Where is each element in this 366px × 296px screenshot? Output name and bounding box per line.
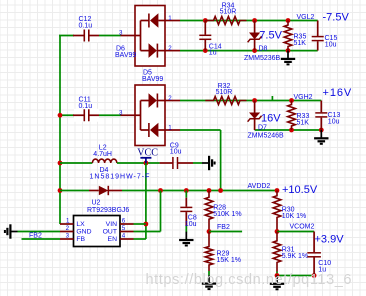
label C11 bbox=[79, 97, 91, 104]
svg-text:OUT: OUT bbox=[103, 229, 117, 236]
svg-text:FB2: FB2 bbox=[29, 232, 42, 239]
pin number 2 of D5 bbox=[168, 95, 172, 102]
wire left vertical bus from C12 row down to U2 LX pin bbox=[58, 36, 61, 225]
U2 pin 5 OUT lead bbox=[120, 231, 134, 233]
svg-text:1: 1 bbox=[168, 15, 172, 22]
value 0.1u of C12 bbox=[79, 23, 93, 30]
junction VCC junction bbox=[144, 161, 149, 166]
dual diode D5 BAV99 box bbox=[135, 85, 165, 146]
pin name VIN bbox=[106, 221, 117, 228]
svg-text:VCC: VCC bbox=[137, 148, 158, 159]
resistor R28 510K 1% bbox=[205, 191, 213, 232]
net voltage +10.5V bbox=[282, 184, 318, 196]
ground right of C9 bbox=[202, 156, 215, 170]
junction C10 bottom junction bbox=[312, 273, 317, 278]
label R33 bbox=[297, 113, 310, 120]
part BAV99 of D6 bbox=[115, 52, 136, 59]
designator D8 bbox=[259, 46, 268, 53]
inductor L2 4.7uH bbox=[92, 159, 116, 163]
svg-text:VIN: VIN bbox=[106, 221, 117, 228]
label R35 bbox=[294, 34, 307, 41]
net label VCOM2 bbox=[290, 224, 315, 231]
resistor R29 15K 1% bbox=[205, 232, 213, 272]
svg-text:0.1u: 0.1u bbox=[79, 103, 93, 110]
label R32 bbox=[218, 83, 231, 90]
wire from C9 to ground bbox=[193, 162, 202, 164]
power port VCC bbox=[137, 148, 158, 164]
D6 internal bus and pin3 stub bbox=[135, 21, 141, 51]
resistor R30 10K 1% bbox=[273, 191, 281, 232]
label C9 bbox=[170, 143, 179, 150]
svg-text:7.5V: 7.5V bbox=[259, 30, 282, 42]
svg-text:1: 1 bbox=[66, 217, 70, 224]
junction VIN junction bbox=[144, 222, 149, 227]
pin number 1 of U2 bbox=[66, 217, 70, 224]
pin number 1 of D5 bbox=[168, 125, 172, 132]
designator U2 bbox=[92, 200, 101, 207]
resistor R34 510R bbox=[205, 17, 246, 25]
wire from ground to U2 GND pin bbox=[18, 231, 61, 233]
D5 pin 3 lead bbox=[121, 114, 136, 116]
svg-text:4.7uH: 4.7uH bbox=[93, 151, 112, 158]
resistor R35 51K bbox=[284, 21, 292, 51]
svg-text:16V: 16V bbox=[261, 113, 281, 125]
junction R35 bottom bbox=[286, 48, 291, 53]
svg-text:10u: 10u bbox=[170, 149, 182, 156]
capacitor C13 10u bbox=[315, 101, 327, 131]
junction R31 ground junction bbox=[275, 273, 280, 278]
svg-text:VCOM2: VCOM2 bbox=[290, 224, 315, 231]
value 510K 1% of R28 bbox=[213, 211, 241, 218]
svg-text:U2: U2 bbox=[92, 200, 101, 207]
label C14 bbox=[209, 44, 222, 51]
wire vertical from corner down to AVDD2 row bbox=[220, 130, 222, 191]
net label VGL2 bbox=[297, 14, 315, 21]
resistor R31 5.9K 1% bbox=[273, 232, 281, 272]
svg-text:D7: D7 bbox=[258, 125, 267, 132]
svg-text:EN: EN bbox=[108, 236, 118, 243]
junction D7 top bbox=[252, 98, 257, 103]
ground below C13 bbox=[314, 130, 328, 144]
svg-text:5.9K 1%: 5.9K 1% bbox=[282, 253, 308, 260]
svg-text:+16V: +16V bbox=[323, 87, 353, 99]
pin name GND bbox=[76, 229, 91, 236]
pin number 3 of D5 bbox=[119, 110, 123, 117]
resistor R32 510R bbox=[205, 97, 246, 105]
U2 pin 4 EN lead bbox=[120, 238, 134, 240]
value 1u of C10 bbox=[318, 267, 326, 274]
label L2 bbox=[99, 145, 107, 152]
wire VIN pin to riser bbox=[134, 223, 146, 225]
svg-text:+10.5V: +10.5V bbox=[282, 184, 318, 196]
wire vertical from VCC junction down to U2 VIN bbox=[145, 163, 147, 224]
wire from left bus to D4 anode bbox=[60, 190, 89, 192]
net label FB2 right bbox=[217, 224, 230, 231]
value 510R of R34 bbox=[220, 9, 237, 16]
value 51K of R35 bbox=[294, 40, 307, 47]
pin number 2 of U2 bbox=[66, 225, 70, 232]
junction C13 bottom bbox=[319, 128, 324, 133]
svg-text:51K: 51K bbox=[294, 40, 307, 47]
junction VCOM2 junction bbox=[275, 229, 280, 234]
label R34 bbox=[222, 3, 235, 10]
wire net FB2 stub at U2 FB pin bbox=[22, 238, 61, 240]
junction left bus at D4 row bbox=[58, 188, 63, 193]
value 5.9K 1% of R31 bbox=[282, 253, 308, 260]
schottky diode D4 1N5819HW-7-F bbox=[89, 186, 122, 195]
label R31 bbox=[282, 247, 295, 254]
wire from L2 to VCC junction and C9 bbox=[117, 162, 160, 164]
D5 pin 1 lead bbox=[165, 129, 180, 131]
wire from left vertical to C11 and D5 pin3 bbox=[60, 114, 121, 116]
junction C8 top junction bbox=[184, 188, 189, 193]
svg-text:BAV99: BAV99 bbox=[142, 76, 163, 83]
pin name EN bbox=[108, 236, 118, 243]
svg-text:-7.5V: -7.5V bbox=[323, 12, 350, 24]
svg-text:4: 4 bbox=[122, 232, 126, 239]
D5 internal top diode cathode-right on pin2 row bbox=[141, 93, 166, 108]
pin number 4 of U2 bbox=[122, 232, 126, 239]
pin number 2 of D6 bbox=[168, 45, 172, 52]
wire stub above VGH2 row bbox=[271, 96, 273, 101]
value 51K of R33 bbox=[297, 120, 310, 127]
svg-text:3: 3 bbox=[119, 30, 123, 37]
label C10 bbox=[318, 260, 331, 267]
wire OUT pin to riser up to AVDD2 row bbox=[134, 191, 161, 232]
pin name FB bbox=[76, 236, 85, 243]
U2 pin 1 LX lead bbox=[60, 223, 74, 225]
designator D5 bbox=[143, 70, 152, 77]
svg-text:ZMM5236B: ZMM5236B bbox=[244, 55, 281, 62]
value 1u of C14 bbox=[209, 49, 217, 56]
capacitor C9 10u bbox=[160, 157, 193, 169]
label C8 bbox=[188, 215, 197, 222]
svg-text:LX: LX bbox=[76, 221, 85, 228]
wire net VGH2 row from D5 pin2 to C13 bbox=[180, 100, 321, 102]
wire net FB2 stub bbox=[209, 231, 242, 233]
U2 pin 3 FB lead bbox=[60, 238, 74, 240]
capacitor C11 0.1u bbox=[73, 109, 99, 122]
voltage 16V at D7 bbox=[261, 113, 281, 125]
junction R28 top junction bbox=[207, 188, 212, 193]
wire from left bus to inductor L2 bbox=[60, 162, 92, 164]
svg-text:1: 1 bbox=[168, 125, 172, 132]
svg-text:51K: 51K bbox=[297, 120, 310, 127]
pin name LX bbox=[76, 221, 85, 228]
value 510R of R32 bbox=[216, 89, 233, 96]
svg-text:10u: 10u bbox=[325, 42, 337, 49]
svg-text:0.1u: 0.1u bbox=[79, 23, 93, 30]
capacitor C8 10u bbox=[180, 191, 192, 233]
svg-text:15K 1%: 15K 1% bbox=[217, 257, 242, 264]
svg-text:3: 3 bbox=[119, 110, 123, 117]
D6 pin 2 lead bbox=[165, 50, 180, 52]
svg-text:FB2: FB2 bbox=[217, 224, 230, 231]
zener diode D8 ZMM5236B bbox=[248, 21, 262, 51]
capacitor C14 1u bbox=[199, 21, 211, 51]
part ZMM5236B of D8 bbox=[244, 55, 281, 62]
junction R33 top bbox=[289, 98, 294, 103]
svg-text:2: 2 bbox=[168, 95, 172, 102]
junction R35 top bbox=[286, 18, 291, 23]
svg-text:VGH2: VGH2 bbox=[294, 94, 313, 101]
svg-text:2: 2 bbox=[66, 225, 70, 232]
value 10K 1% of R30 bbox=[282, 213, 307, 220]
ground below R29 bbox=[202, 275, 216, 289]
svg-text:GND: GND bbox=[76, 229, 91, 236]
wire from R31 bottom to C10 bottom bbox=[277, 272, 314, 276]
svg-text:10K 1%: 10K 1% bbox=[282, 213, 307, 220]
svg-text:510R: 510R bbox=[220, 9, 237, 16]
zener diode D7 ZMM5246B bbox=[248, 101, 262, 131]
junction R33 bottom bbox=[289, 128, 294, 133]
wire net VGL2 top row from D6 pin1 to C15 bbox=[180, 20, 318, 22]
D6 pin 3 lead bbox=[121, 35, 136, 37]
svg-text:BAV99: BAV99 bbox=[115, 52, 136, 59]
label C15 bbox=[325, 35, 338, 42]
junction C11 row to left bus bbox=[58, 113, 63, 118]
net voltage +16V bbox=[323, 87, 353, 99]
label C13 bbox=[328, 112, 341, 119]
value 10u of C8 bbox=[185, 221, 197, 228]
wire bottom row of VGL2 section from D6 pin2 to C15 bbox=[180, 50, 318, 52]
pin number 5 of U2 bbox=[122, 225, 126, 232]
D5 internal bus and pin3 stub bbox=[135, 101, 141, 131]
net label AVDD2 bbox=[248, 183, 271, 190]
pin number 3 of U2 bbox=[66, 232, 70, 239]
svg-text:10u: 10u bbox=[185, 221, 197, 228]
ground below R35 bbox=[281, 51, 295, 65]
junction D8 top bbox=[252, 18, 257, 23]
designator D4 bbox=[100, 167, 109, 174]
capacitor C15 10u bbox=[312, 21, 324, 51]
capacitor C10 1u bbox=[307, 232, 321, 276]
wire from R29 to ground bbox=[208, 271, 210, 275]
svg-text:10u: 10u bbox=[328, 119, 340, 126]
wire from left vertical to C12 and D6 pin3 bbox=[59, 35, 120, 37]
D5 internal bottom diode cathode-left on pin1 row bbox=[141, 123, 166, 138]
svg-text:RT9293BGJ6: RT9293BGJ6 bbox=[87, 207, 129, 214]
value 15K 1% of R29 bbox=[217, 257, 242, 264]
svg-text:1u: 1u bbox=[209, 49, 217, 56]
label R30 bbox=[282, 207, 295, 214]
svg-text:510R: 510R bbox=[216, 89, 233, 96]
junction R30 top junction bbox=[275, 188, 280, 193]
junction OUT riser junction bbox=[158, 188, 163, 193]
junction FB2 junction bbox=[207, 229, 212, 234]
U2 pin 2 GND lead bbox=[60, 231, 74, 233]
part RT9293BGJ6 of U2 bbox=[87, 207, 129, 214]
junction C14 top bbox=[203, 18, 208, 23]
part ZMM5246B of D7 bbox=[248, 133, 285, 140]
label R29 bbox=[217, 251, 230, 258]
net voltage +3.9V bbox=[315, 234, 345, 246]
D6 internal bottom diode cathode-right on pin2 row bbox=[141, 43, 166, 58]
svg-text:ZMM5246B: ZMM5246B bbox=[248, 133, 285, 140]
part 1N5819HW-7-F of D4 bbox=[90, 173, 151, 180]
svg-text:+3.9V: +3.9V bbox=[315, 234, 345, 246]
svg-text:D8: D8 bbox=[259, 46, 268, 53]
D5 pin 2 lead bbox=[165, 100, 180, 102]
junction D8 bottom bbox=[252, 48, 257, 53]
value 10u of C9 bbox=[170, 149, 182, 156]
net label FB2 left bbox=[29, 232, 42, 239]
value 10u of C13 bbox=[328, 119, 340, 126]
designator D7 bbox=[258, 125, 267, 132]
label C12 bbox=[79, 16, 92, 23]
D6 internal top diode cathode-left on pin1 row bbox=[141, 13, 166, 28]
net voltage -7.5V bbox=[323, 12, 350, 24]
junction left bus at L2 row bbox=[58, 161, 63, 166]
svg-text:3: 3 bbox=[66, 232, 70, 239]
value 0.1u of C11 bbox=[79, 103, 93, 110]
part BAV99 of D5 bbox=[142, 76, 163, 83]
voltage 7.5V at D8 bbox=[259, 30, 282, 42]
wire from D5 pin1 to corner bbox=[180, 129, 221, 131]
pin name OUT bbox=[103, 229, 117, 236]
svg-text:https://blog.csdn.net/pq113_6: https://blog.csdn.net/pq113_6 bbox=[146, 272, 353, 288]
IC U2 RT9293BGJ6 box bbox=[74, 216, 121, 247]
svg-text:5: 5 bbox=[122, 225, 126, 232]
junction C14 bottom bbox=[203, 48, 208, 53]
designator D6 bbox=[116, 46, 125, 53]
svg-text:FB: FB bbox=[76, 236, 85, 243]
wire VIN riser to EN pin bbox=[134, 224, 146, 239]
label R28 bbox=[213, 205, 226, 212]
svg-text:2: 2 bbox=[168, 45, 172, 52]
net label VGH2 bbox=[294, 94, 313, 101]
pin number 6 of U2 bbox=[122, 217, 126, 224]
svg-text:510K 1%: 510K 1% bbox=[213, 211, 241, 218]
pin number 3 of D6 bbox=[119, 30, 123, 37]
junction D5 branch junction bbox=[218, 188, 223, 193]
value 4.7uH of L2 bbox=[93, 151, 112, 158]
resistor R33 51K bbox=[288, 101, 296, 131]
capacitor C12 0.1u bbox=[73, 29, 99, 42]
ground below R31 bbox=[270, 276, 284, 290]
wire bottom row of VGH2 section from D7 to C13 bbox=[255, 129, 322, 131]
svg-text:VGL2: VGL2 bbox=[297, 14, 315, 21]
ground below C8 bbox=[179, 232, 193, 246]
ground left of U2 GND bbox=[5, 224, 18, 238]
wire net VCOM2 from R30 bottom to C10 bbox=[277, 231, 314, 233]
U2 pin 6 VIN lead bbox=[120, 223, 134, 225]
wire net AVDD2 from D4 cathode to R30 bbox=[122, 190, 277, 192]
svg-text:AVDD2: AVDD2 bbox=[248, 183, 271, 190]
svg-text:1N5819HW-7-F: 1N5819HW-7-F bbox=[90, 173, 151, 180]
watermark text bbox=[146, 272, 353, 288]
dual diode D6 BAV99 box bbox=[135, 6, 165, 67]
value 10u of C15 bbox=[325, 42, 337, 49]
svg-text:6: 6 bbox=[122, 217, 126, 224]
D6 pin 1 lead bbox=[165, 20, 180, 22]
pin number 1 of D6 bbox=[168, 15, 172, 22]
